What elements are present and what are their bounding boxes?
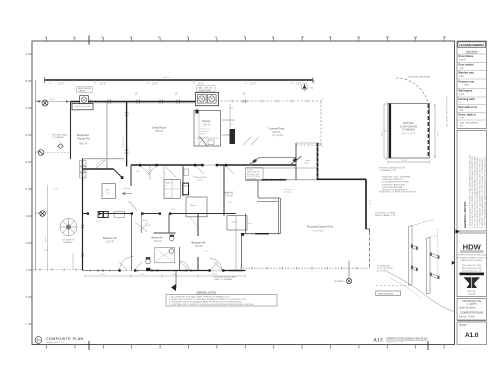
patio tick crosses on top edge (232, 100, 307, 102)
svg-text:14'-2": 14'-2" (140, 274, 146, 276)
dimension text row under property line (58, 83, 302, 86)
svg-text:Covered Patio: Covered Patio (268, 127, 285, 131)
svg-text:25'-0": 25'-0" (46, 236, 48, 242)
svg-text:2x4 RAILS AT: 2x4 RAILS AT (377, 265, 391, 268)
closet mid (186, 197, 207, 217)
svg-text:UPPER FLOOR DEMOLITION PLAN: UPPER FLOOR DEMOLITION PLAN (386, 338, 428, 341)
svg-text:Linen: Linen (166, 198, 172, 200)
kitchen (194, 110, 221, 147)
svg-text:9'-6": 9'-6" (50, 99, 55, 101)
svg-text:- SEE SITE PLAN SHT A0.1: - SEE SITE PLAN SHT A0.1 (381, 189, 408, 192)
svg-text:126 SF: 126 SF (195, 245, 204, 248)
family room / great room divider walls (106, 103, 108, 168)
svg-text:TO REMAIN: TO REMAIN (402, 129, 415, 132)
bedroom wing bottom wall (83, 270, 147, 272)
svg-text:fixtures: fixtures (200, 133, 206, 136)
svg-text:Closet: Closet (124, 187, 131, 190)
svg-text:E: E (26, 160, 28, 164)
svg-text:Kitchen: Kitchen (202, 119, 211, 123)
svg-text:(E) TREE: (E) TREE (334, 281, 343, 283)
svg-text:7. WRITTEN DIMENSIONS TAKE PRE: 7. WRITTEN DIMENSIONS TAKE PRECEDENCE OV… (483, 156, 486, 228)
svg-text:TEL (408) 555-1234: TEL (408) 555-1234 (462, 265, 482, 267)
svg-text:142 SF: 142 SF (225, 195, 233, 198)
sheet border (32, 41, 455, 345)
garage detail (379, 76, 440, 192)
ruler ticks bottom (47, 341, 445, 350)
dimension ticks under property line (50, 80, 314, 84)
family room label (77, 133, 90, 146)
svg-text:- EXISTING CONC. DRIVEWAY: - EXISTING CONC. DRIVEWAY (381, 176, 411, 179)
property line top (heavy) (45, 79, 314, 81)
svg-text:SEE SHEET A0.1 FOR NOTES: SEE SHEET A0.1 FOR NOTES (446, 96, 449, 127)
svg-text:4x4 POSTS: 4x4 POSTS (377, 271, 389, 273)
svg-text:480 SF: 480 SF (155, 129, 164, 133)
hatched existing wall (317, 143, 319, 180)
door swing bedroom2 (129, 201, 137, 211)
flag symbol bottom center-left (175, 271, 177, 289)
svg-text:HOME DESIGN WORKS INC: HOME DESIGN WORKS INC (457, 255, 486, 257)
svg-text:EST. No.: EST. No. (468, 291, 477, 293)
svg-text:3'-6": 3'-6" (171, 209, 175, 211)
svg-text:size: size (460, 75, 465, 78)
tree at fence (348, 261, 350, 279)
svg-text:RELOCATED: RELOCATED (78, 87, 92, 90)
svg-text:SCALE: 1/4" = 1'-0": SCALE: 1/4" = 1'-0" (47, 341, 65, 344)
svg-text:SHEET: SHEET (459, 325, 467, 327)
svg-text:GATE TO REMAIN: GATE TO REMAIN (215, 278, 233, 281)
bottom-left title (35, 336, 83, 344)
storage box center (102, 184, 115, 199)
vertical wall x224 (223, 165, 225, 216)
closet right (227, 216, 247, 230)
svg-text:20'-0": 20'-0" (198, 83, 204, 86)
svg-text:B: B (26, 79, 28, 83)
svg-text:K: K (26, 295, 28, 299)
svg-text:SCALE: 1/4" = 1'-0": SCALE: 1/4" = 1'-0" (387, 340, 405, 343)
toilet lower bath (146, 259, 151, 264)
svg-text:EXISTING DRIVEWAY: EXISTING DRIVEWAY (408, 76, 431, 79)
ruler ticks left (26, 52, 33, 326)
svg-text:Bedroom #4: Bedroom #4 (192, 242, 206, 245)
svg-text:165 SF: 165 SF (203, 125, 211, 127)
svg-text:bld.: bld. (460, 109, 464, 112)
svg-text:in closet: in closet (196, 178, 203, 181)
svg-text:size: size (460, 67, 465, 70)
svg-text:Proposed Second Unit: Proposed Second Unit (307, 225, 333, 229)
svg-text:10'-2": 10'-2" (296, 83, 302, 86)
covered patio dashed outline (215, 99, 323, 147)
garage leader note (379, 167, 405, 173)
bedroom wing left wall (82, 159, 84, 271)
svg-text:C: C (26, 106, 28, 110)
FAU / WH platform (196, 86, 219, 106)
svg-text:EXISTING GARAGE DOOR: EXISTING GARAGE DOOR (379, 167, 405, 170)
room dim texts (96, 171, 232, 253)
svg-text:C-12345: C-12345 (468, 294, 477, 296)
site notes box (166, 292, 277, 307)
window tick marks on north wall (88, 100, 246, 104)
rear porch strip walls (246, 167, 318, 169)
hall wall vertical (130, 165, 132, 186)
svg-text:name: name (460, 58, 467, 61)
svg-text:W: W (165, 186, 167, 188)
svg-text:rem.: rem. (460, 117, 465, 120)
diagonal corner right + door swing (248, 157, 296, 165)
window ticks on west wall (81, 226, 84, 257)
sheet number box (457, 321, 487, 345)
svg-text:Job No: 17-042: Job No: 17-042 (459, 317, 475, 319)
svg-text:SCREENED: SCREENED (247, 178, 258, 180)
courtyard recess walls (257, 181, 259, 198)
keynote diamond (57, 144, 63, 149)
house north wall (71, 101, 218, 103)
left dimension line (35, 80, 37, 271)
svg-text:12'-4": 12'-4" (152, 83, 158, 86)
svg-text:EXISTING 6'-0" HIGH WOOD FENCE: EXISTING 6'-0" HIGH WOOD FENCE (379, 192, 416, 194)
svg-text:120 SF: 120 SF (106, 241, 115, 244)
svg-text:FAX (408) 555-1235: FAX (408) 555-1235 (462, 267, 482, 270)
svg-text:9'-4": 9'-4" (228, 202, 232, 204)
svg-text:(N): (N) (310, 87, 313, 89)
hall door swings (141, 158, 258, 177)
svg-text:PANEL: PANEL (79, 90, 87, 93)
svg-text:Bins: Bins (305, 162, 309, 164)
svg-text:20'-0": 20'-0" (402, 160, 408, 162)
svg-text:22'-6" x 18'-4": 22'-6" x 18'-4" (123, 135, 125, 148)
great room label (152, 126, 167, 134)
second unit right wall (365, 179, 367, 229)
project info box (457, 299, 487, 321)
svg-text:PLATFORM: PLATFORM (199, 89, 211, 92)
svg-text:FENCE PANELS TYP.: FENCE PANELS TYP. (375, 214, 396, 217)
tree symbol (60, 219, 77, 236)
svg-text:(E) P.L.: (E) P.L. (163, 77, 170, 79)
svg-text:type: type (460, 93, 465, 96)
svg-text:REMAIN: REMAIN (64, 241, 73, 244)
stamp bowtie (464, 277, 481, 288)
svg-text:Symbols: Symbols (466, 50, 478, 54)
svg-text:walkway: walkway (284, 191, 292, 193)
door at angle + trash label (291, 156, 302, 164)
electrical panel label (77, 87, 93, 93)
svg-text:Scale: As Noted: Scale: As Noted (459, 307, 476, 310)
refrigerator / range dark blobs (230, 129, 236, 144)
svg-text:COMPOSITE PLAN: COMPOSITE PLAN (46, 337, 84, 341)
wing top-left walls (82, 158, 124, 160)
svg-text:e.: e. (460, 101, 462, 104)
arrow symbol (123, 192, 133, 195)
door jambs (87, 164, 227, 272)
svg-text:HDW: HDW (463, 242, 482, 251)
second unit top wall (318, 178, 367, 180)
equipment note box (246, 168, 264, 181)
svg-text:4. CONTRACTOR TO VERIFY LOCATI: 4. CONTRACTOR TO VERIFY LOCATION OF ALL … (169, 303, 255, 306)
svg-text:1234 MAIN STREET SUITE 100: 1234 MAIN STREET SUITE 100 (456, 256, 488, 259)
closet cells at left wall (80, 161, 87, 179)
svg-text:24'-0": 24'-0" (370, 199, 372, 205)
svg-text:D: D (26, 133, 28, 137)
svg-text:118 SF: 118 SF (154, 240, 162, 243)
svg-text:Closet: Closet (190, 204, 197, 207)
svg-text:16'-6": 16'-6" (172, 274, 178, 276)
east wall of wing (235, 216, 237, 271)
svg-text:COMPOSITE PLANS: COMPOSITE PLANS (460, 312, 483, 315)
covered patio label (268, 127, 285, 138)
svg-text:FENCE DETAIL: FENCE DETAIL (378, 292, 394, 295)
svg-text:EXISTING: EXISTING (403, 123, 414, 125)
svg-text:20'-0" x 20'-0": 20'-0" x 20'-0" (401, 134, 415, 136)
note with leader in side yard (52, 134, 69, 140)
svg-text:GENERAL NOTES:: GENERAL NOTES: (463, 201, 467, 228)
svg-text:18'-0": 18'-0" (100, 83, 106, 86)
bedroom1 label (224, 192, 234, 198)
svg-text:24'-6": 24'-6" (58, 83, 64, 86)
svg-text:A: A (26, 52, 28, 56)
diagonal corner left (114, 169, 124, 179)
wing mid horizontal wall (83, 213, 237, 215)
svg-text:5' SB: 5' SB (53, 189, 58, 191)
plan (33, 76, 460, 345)
fence / property dotted bottom (240, 267, 370, 269)
svg-text:Family Rm: Family Rm (78, 136, 90, 140)
electrical platform below wall (72, 104, 93, 110)
svg-text:www.hdw.design.com: www.hdw.design.com (461, 270, 482, 272)
bedroom labels (103, 237, 206, 249)
svg-text:TO REMAIN, TYP.: TO REMAIN, TYP. (380, 169, 397, 172)
svg-text:EXISTING 6'-0" HIGH: EXISTING 6'-0" HIGH (375, 213, 396, 215)
ruler ticks top (45, 35, 446, 45)
svg-text:- NO CHANGES PROPOSED: - NO CHANGES PROPOSED (381, 181, 409, 184)
svg-text:TO REMAIN: TO REMAIN (52, 136, 64, 139)
svg-text:Bath 2: Bath 2 (166, 182, 173, 185)
svg-text:22'-4": 22'-4" (100, 274, 106, 276)
great room east wall (295, 143, 297, 180)
svg-text:A1.0: A1.0 (465, 332, 479, 339)
svg-text:12'-0": 12'-0" (204, 251, 209, 253)
leader text below wing (214, 276, 237, 282)
living/bedroom divider wall (131, 164, 296, 166)
left dim line 2 (47, 185, 49, 271)
svg-text:20'-0": 20'-0" (382, 130, 384, 136)
svg-text:SAN JOSE CA 95100: SAN JOSE CA 95100 (461, 259, 483, 262)
north arrow (301, 84, 313, 91)
vertical wall x198 (197, 214, 199, 271)
svg-text:H: H (26, 241, 28, 245)
fence dotted to left border (33, 269, 83, 271)
svg-text:note: note (464, 84, 469, 87)
svg-text:2-CAR GARAGE: 2-CAR GARAGE (400, 125, 418, 128)
svg-text:10'-8": 10'-8" (146, 225, 151, 227)
svg-text:LEGEND/ABBREV.: LEGEND/ABBREV. (459, 43, 485, 47)
svg-text:RESIDENCE FOR: RESIDENCE FOR (462, 301, 481, 303)
svg-text:GENERAL NOTES: GENERAL NOTES (196, 292, 217, 295)
svg-text:20'-0": 20'-0" (438, 130, 440, 136)
family room left wall (70, 102, 72, 160)
bath cluster center (135, 214, 189, 271)
svg-text:(E) TREE TO: (E) TREE TO (63, 240, 76, 242)
laundry cluster (164, 180, 180, 199)
patio door swings (243, 137, 259, 145)
svg-text:G: G (26, 214, 28, 218)
garage note list (381, 176, 411, 192)
electrical panel meter (80, 96, 89, 104)
svg-text:Stor: Stor (106, 189, 110, 192)
svg-text:(E) SLAB: (E) SLAB (272, 133, 283, 137)
dim arrow top-left (36, 101, 70, 103)
svg-text:A13: A13 (373, 338, 383, 344)
svg-text:5'-0": 5'-0" (136, 171, 140, 173)
svg-text:750 SF MAX: 750 SF MAX (312, 230, 324, 233)
svg-text:11'-2": 11'-2" (96, 221, 101, 223)
svg-text:J. SMITH: J. SMITH (467, 304, 477, 306)
misc interior door arcs bottom (119, 257, 222, 271)
svg-text:Great Room: Great Room (152, 126, 167, 130)
kitchen dim line (229, 104, 231, 128)
general notes box (rotated fine print) (457, 131, 487, 232)
svg-text:- EXISTING WALKWAY: - EXISTING WALKWAY (381, 186, 403, 189)
appliance boxes at wall (98, 212, 103, 218)
dashed leader at left (40, 152, 70, 154)
legend box (457, 41, 487, 129)
svg-text:list: list (460, 125, 463, 128)
svg-text:Closet: Closet (231, 221, 238, 224)
svg-text:Bedroom #2: Bedroom #2 (103, 237, 117, 240)
keynote circle symbols on left (38, 100, 48, 216)
right column (456, 41, 488, 345)
bottom-right title (373, 338, 428, 344)
fence detail (isometric) (388, 219, 455, 312)
svg-text:16'-8": 16'-8" (250, 83, 256, 86)
HDW logo / stamp box (456, 233, 488, 297)
bedroom2 east wall (131, 214, 133, 271)
svg-text:385 SF: 385 SF (79, 142, 88, 146)
svg-text:- EXISTING LANDSCAPE: - EXISTING LANDSCAPE (381, 183, 406, 186)
